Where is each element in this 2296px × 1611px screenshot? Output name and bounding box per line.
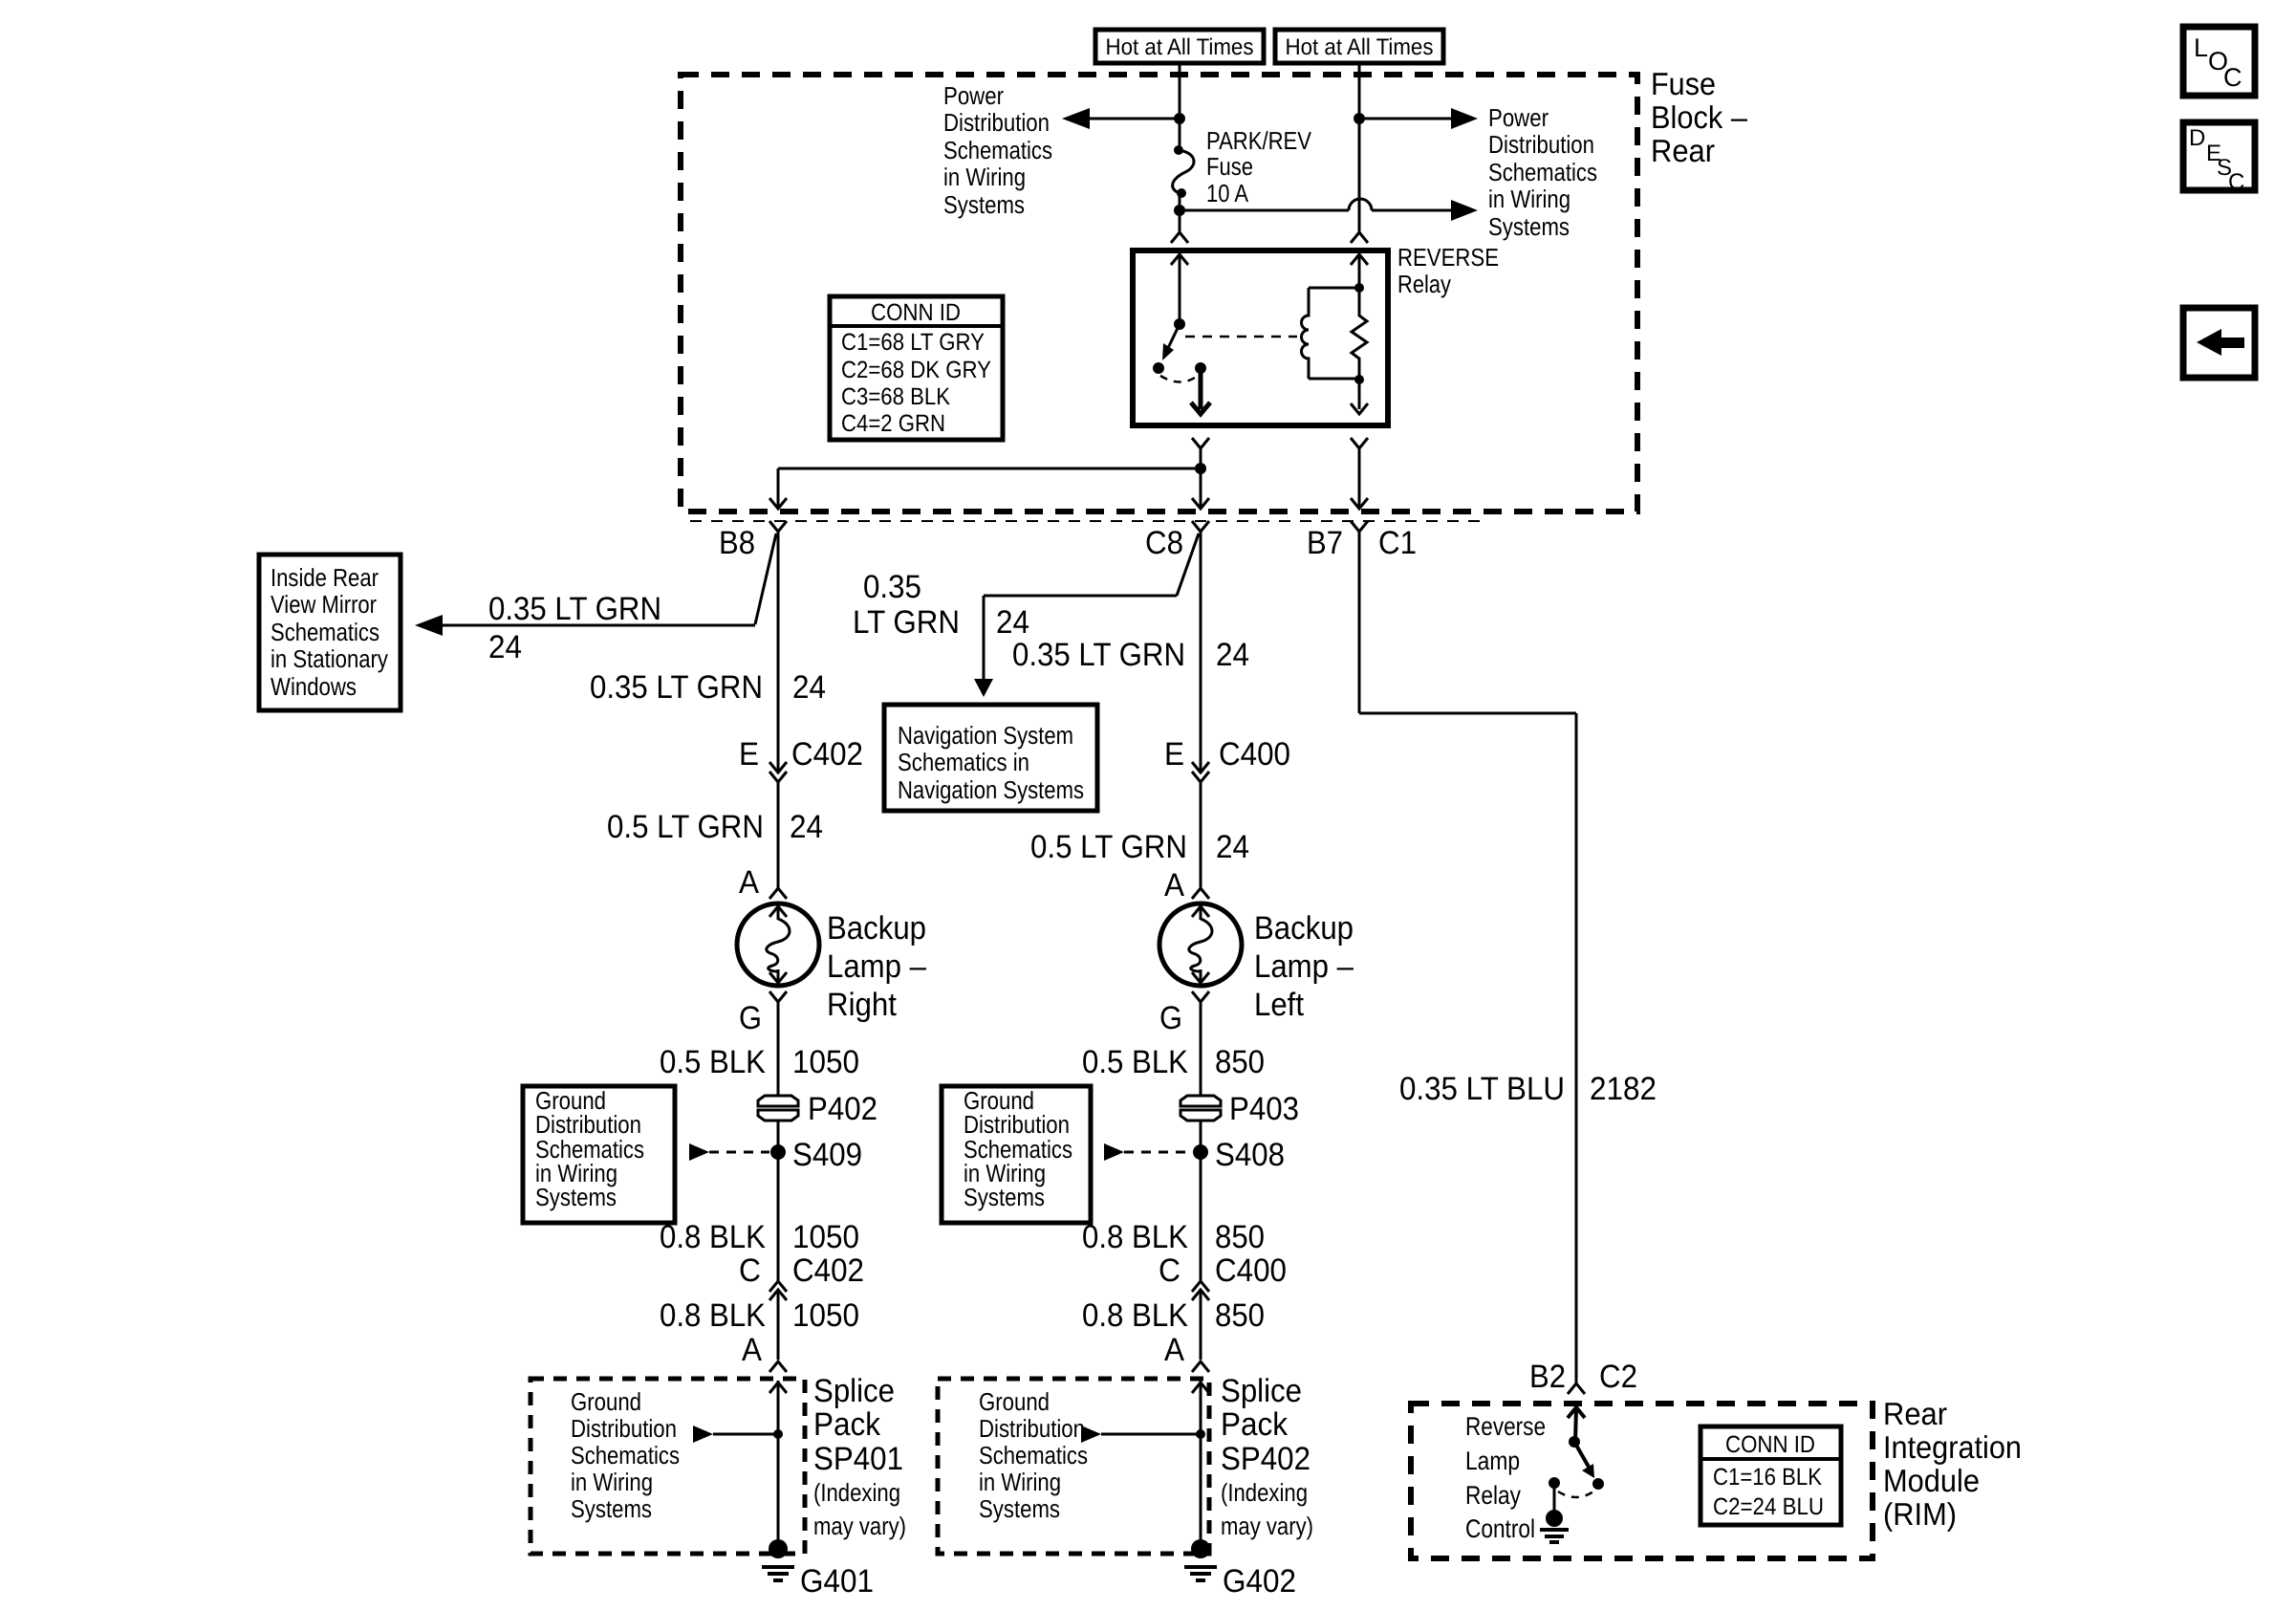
svg-text:C2=24 BLU: C2=24 BLU [1713, 1493, 1824, 1520]
fuse block - rear dashed enclosure [681, 75, 1637, 512]
wire: C402 pin C to splice pack SP401 [777, 1290, 780, 1360]
svg-text:Lamp –: Lamp – [1254, 948, 1354, 985]
dashed reference link to S409 [689, 1143, 769, 1161]
grommet P403 [1180, 1096, 1221, 1121]
connector C400 pin E (in-line) [1192, 762, 1209, 782]
wire: right power distribution arrow [1359, 118, 1452, 120]
relay switch: common pivot [1174, 318, 1185, 330]
label: PARK/REV Fuse 10 A [1206, 126, 1312, 207]
svg-text:C: C [2228, 169, 2244, 195]
pin label: C / C402 [739, 1252, 864, 1289]
connector fork: lamp right pin G [769, 991, 787, 1002]
svg-text:Relay: Relay [1465, 1481, 1521, 1510]
svg-text:Schematics: Schematics [271, 618, 379, 646]
svg-text:Windows: Windows [271, 672, 357, 701]
svg-text:C400: C400 [1215, 1252, 1287, 1289]
svg-text:C3=68 BLK: C3=68 BLK [841, 383, 950, 410]
label: 0.8 BLK 1050 (below C402) [660, 1297, 859, 1334]
svg-text:24: 24 [790, 809, 823, 845]
svg-text:0.8 BLK: 0.8 BLK [1082, 1297, 1188, 1334]
svg-text:G401: G401 [800, 1563, 874, 1600]
wire: C400 to backup lamp left pin A [1200, 782, 1202, 888]
svg-text:SP402: SP402 [1221, 1441, 1310, 1477]
svg-text:in Wiring: in Wiring [943, 163, 1026, 191]
svg-text:A: A [739, 864, 759, 901]
rear integration module dashed box [1411, 1404, 1873, 1558]
connector fork: SP401 pin A [769, 1361, 787, 1372]
junction: fuse output node [1174, 205, 1185, 216]
wire: fuse output down to reverse relay [1179, 193, 1181, 232]
svg-text:850: 850 [1215, 1219, 1265, 1255]
relay switch: travel arc (dashed) [1160, 376, 1198, 382]
label: 0.5 LT GRN 24 (left) [607, 809, 823, 845]
relay switch: NO output contact [1195, 362, 1206, 374]
reference link arrow inside SP402 [1081, 1426, 1201, 1443]
svg-text:in Wiring: in Wiring [1488, 185, 1570, 213]
label: Backup Lamp - Left [1254, 910, 1354, 1023]
junction: left hot feed node [1174, 113, 1185, 124]
label: 0.35 LT GRN 24 (navigation branch) [853, 569, 1029, 641]
wire: SP401 internal bus to ground [777, 1381, 780, 1549]
svg-text:CONN ID: CONN ID [871, 299, 961, 326]
relay switch: movable arm [1162, 324, 1180, 360]
svg-text:(Indexing: (Indexing [813, 1478, 900, 1507]
label: Backup Lamp - Right [827, 910, 926, 1023]
svg-text:Backup: Backup [1254, 910, 1354, 947]
connector fork: B2/C2 (above RIM) [1568, 1383, 1585, 1394]
svg-text:Schematics: Schematics [943, 136, 1052, 164]
terminal arrow: relay pin 30 (inside top) [1171, 254, 1188, 324]
svg-text:Navigation Systems: Navigation Systems [898, 775, 1084, 804]
svg-text:Reverse: Reverse [1465, 1412, 1546, 1441]
svg-text:850: 850 [1215, 1297, 1265, 1334]
svg-text:1050: 1050 [792, 1044, 859, 1080]
label: Power Distribution Schematics in Wiring Systems (right) [1488, 103, 1597, 241]
label: 0.8 BLK 1050 (above C402) [660, 1219, 859, 1255]
svg-text:Schematics in: Schematics in [898, 748, 1029, 776]
RIM switch: ground contact [1549, 1477, 1560, 1489]
pin label: C / C400 [1159, 1252, 1287, 1289]
svg-text:C: C [739, 1252, 761, 1289]
svg-text:0.8 BLK: 0.8 BLK [1082, 1219, 1188, 1255]
connector fork: relay pin 87 output (below box) [1192, 438, 1209, 509]
fuse F: PARK/REV 10 A [1173, 145, 1194, 198]
svg-text:C402: C402 [792, 1252, 864, 1289]
terminal arrow: C8 exit (inside fuse block) [1192, 498, 1209, 509]
svg-text:0.5 BLK: 0.5 BLK [1082, 1044, 1188, 1080]
svg-text:Hot at All Times: Hot at All Times [1286, 34, 1434, 60]
relay switch: actuation link to coil (dashed) [1185, 336, 1297, 338]
svg-text:Power: Power [1488, 103, 1549, 132]
wire: relay switched output (thick down arrow) [1191, 368, 1210, 414]
wire: relay coil return to pin 85 with down arrow [1351, 380, 1368, 414]
svg-text:Distribution: Distribution [979, 1414, 1085, 1443]
svg-text:P403: P403 [1229, 1091, 1299, 1127]
svg-text:0.35 LT BLU: 0.35 LT BLU [1399, 1071, 1565, 1107]
svg-text:Schematics: Schematics [1488, 158, 1597, 186]
junction: coil bottom node [1354, 375, 1364, 384]
ground: RIM internal [1540, 1510, 1569, 1542]
label: 0.35 LT GRN 24 (left column) [590, 669, 826, 706]
svg-text:C400: C400 [1219, 736, 1290, 773]
svg-text:A: A [742, 1332, 762, 1368]
junction: SP402 bus node [1196, 1429, 1205, 1439]
junction: SP401 bus node [773, 1429, 783, 1439]
wire: internal branch to B8 exit [778, 468, 1201, 509]
wire: P402 to connector C402 pin C [777, 1120, 780, 1281]
junction: relay output / B8 branch node [1195, 463, 1206, 474]
svg-text:24: 24 [1216, 637, 1249, 673]
svg-text:Splice: Splice [813, 1373, 895, 1409]
svg-text:Fuse: Fuse [1206, 152, 1253, 181]
svg-text:Schematics: Schematics [979, 1441, 1088, 1469]
svg-text:24: 24 [996, 604, 1029, 641]
splice pack SP401 dashed box [531, 1379, 805, 1554]
svg-text:2182: 2182 [1590, 1071, 1657, 1107]
relay K: REVERSE Relay box [1133, 250, 1388, 425]
svg-text:G402: G402 [1223, 1563, 1296, 1600]
label: 0.35 LT BLU 2182 [1399, 1071, 1657, 1107]
DESC key box [2183, 122, 2255, 195]
relay switch: NC contact [1153, 362, 1164, 374]
svg-text:SP401: SP401 [813, 1441, 903, 1477]
svg-text:Distribution: Distribution [943, 108, 1050, 137]
callout box: Ground Distribution Schematics in Wiring Systems (left) [523, 1086, 675, 1223]
connector fork: relay pin 86 feed (top right) [1351, 232, 1368, 243]
svg-text:LT GRN: LT GRN [853, 604, 960, 641]
svg-text:Distribution: Distribution [1488, 130, 1594, 159]
callout text: Ground Distribution Schematics in Wiring Systems (SP401) [571, 1387, 680, 1523]
wire: B8 branch to inside rear view mirror schematics [415, 533, 776, 636]
RIM switch: output contact [1592, 1478, 1604, 1490]
relay coil [1302, 288, 1360, 379]
power tag: Hot at All Times (left) [1095, 30, 1264, 63]
svg-text:C1: C1 [1378, 525, 1417, 561]
svg-text:may vary): may vary) [1221, 1512, 1313, 1540]
pin label: E / C400 [1164, 736, 1290, 773]
connector fork: lamp left pin G [1192, 991, 1209, 1002]
wire: lamp right G to grommet P402 [777, 1002, 780, 1098]
label: Fuse Block - Rear [1651, 66, 1748, 168]
svg-text:850: 850 [1215, 1044, 1265, 1080]
grommet P402 [758, 1096, 798, 1121]
label: 0.35 LT GRN 24 (mirror branch) [488, 591, 661, 665]
splice S408 [1193, 1144, 1208, 1160]
power tag: Hot at All Times (right) [1275, 30, 1443, 63]
connector fork: B8 (below fuse block) [769, 521, 787, 532]
svg-text:Rear: Rear [1883, 1396, 1947, 1431]
pin label: E / C402 [739, 736, 863, 773]
svg-text:C1=68 LT GRY: C1=68 LT GRY [841, 329, 985, 356]
svg-text:D: D [2189, 125, 2205, 151]
svg-text:S409: S409 [792, 1137, 862, 1173]
callout box: Navigation System Schematics in Navigation Systems [884, 705, 1097, 811]
svg-text:C: C [1159, 1252, 1180, 1289]
svg-text:S408: S408 [1215, 1137, 1285, 1173]
svg-text:Pack: Pack [1221, 1406, 1289, 1443]
svg-text:B8: B8 [719, 525, 755, 561]
terminal arrow: SP402 entry [1192, 1382, 1209, 1393]
svg-text:24: 24 [792, 669, 826, 706]
svg-text:Systems: Systems [979, 1494, 1060, 1523]
terminal arrow: C1 exit (inside fuse block) [1351, 498, 1368, 509]
wire: C8 branch to navigation system schematics [974, 533, 1199, 697]
ground G401 [762, 1539, 794, 1580]
label: 0.5 LT GRN 24 (middle) [1030, 829, 1249, 865]
svg-text:Schematics: Schematics [571, 1441, 680, 1469]
svg-text:G: G [739, 1000, 762, 1036]
svg-text:1050: 1050 [792, 1219, 859, 1255]
svg-text:Distribution: Distribution [571, 1414, 677, 1443]
svg-text:Ground: Ground [571, 1387, 641, 1416]
label: 0.35 LT GRN 24 (middle column) [1012, 637, 1249, 673]
svg-text:B2: B2 [1529, 1359, 1566, 1395]
wire: B8 to connector C402 pin E [777, 532, 780, 773]
label: 0.8 BLK 850 (above C400) [1082, 1219, 1265, 1255]
svg-text:Navigation System: Navigation System [898, 721, 1073, 750]
svg-text:C4=2 GRN: C4=2 GRN [841, 410, 945, 437]
wire: fuse output distribution arrow with hop over right feed [1180, 199, 1478, 221]
connector C402 pin E (in-line) [769, 762, 787, 782]
terminal arrow: relay pin 86 (inside top) [1351, 254, 1368, 288]
svg-text:A: A [1164, 867, 1184, 903]
svg-text:Systems: Systems [964, 1183, 1045, 1211]
svg-text:0.8 BLK: 0.8 BLK [660, 1297, 766, 1334]
table: CONN ID (fuse block connectors) [830, 296, 1003, 440]
svg-text:Lamp –: Lamp – [827, 948, 926, 985]
junction: coil top node [1354, 283, 1364, 293]
svg-text:24: 24 [1216, 829, 1249, 865]
svg-text:Pack: Pack [813, 1406, 881, 1443]
wire: P403 to connector C400 pin C [1200, 1120, 1202, 1281]
label: 0.5 BLK 850 [1082, 1044, 1265, 1080]
label: Power Distribution Schematics in Wiring Systems (left) [943, 81, 1052, 219]
RIM switch: movable arm [1574, 1442, 1594, 1478]
RIM switch: travel arc (dashed) [1558, 1491, 1593, 1497]
svg-text:in Wiring: in Wiring [571, 1468, 653, 1496]
wire: C402 to backup lamp right pin A [777, 782, 780, 888]
connector fork: lamp right pin A [769, 888, 787, 899]
svg-text:REVERSE: REVERSE [1397, 243, 1499, 272]
lamp E: Backup Lamp - Left [1159, 903, 1242, 986]
reference link arrow inside SP401 [693, 1426, 778, 1443]
svg-text:Ground: Ground [979, 1387, 1050, 1416]
svg-text:24: 24 [488, 629, 522, 665]
svg-text:E: E [739, 736, 759, 773]
terminal arrow: B8 exit (inside fuse block) [769, 498, 787, 509]
svg-text:A: A [1164, 1332, 1184, 1368]
svg-text:Rear: Rear [1651, 133, 1715, 168]
svg-text:Systems: Systems [571, 1494, 652, 1523]
svg-text:C2: C2 [1599, 1359, 1637, 1395]
svg-text:1050: 1050 [792, 1297, 859, 1334]
wire: left power distribution arrow [1089, 118, 1180, 120]
svg-text:in Stationary: in Stationary [271, 644, 388, 673]
connector C400 pin C (in-line) [1192, 1281, 1209, 1300]
svg-text:Inside Rear: Inside Rear [271, 563, 379, 592]
svg-text:Right: Right [827, 987, 898, 1023]
splice pack SP402 dashed box [938, 1379, 1209, 1554]
svg-text:Control: Control [1465, 1514, 1535, 1543]
connector fork: C8 (below fuse block) [1192, 521, 1209, 532]
label: REVERSE Relay [1397, 243, 1499, 298]
svg-text:Fuse: Fuse [1651, 66, 1716, 101]
wire: lamp left G to grommet P403 [1200, 1002, 1202, 1098]
label: Splice Pack SP401 (Indexing may vary) [813, 1373, 906, 1540]
svg-text:P402: P402 [808, 1091, 877, 1127]
svg-text:0.35 LT GRN: 0.35 LT GRN [1012, 637, 1185, 673]
resistor: relay suppression resistor [1352, 288, 1367, 380]
connector fork: SP402 pin A [1192, 1361, 1209, 1372]
table: CONN ID (RIM connectors) [1700, 1426, 1841, 1525]
callout box: Ground Distribution Schematics in Wiring Systems (middle) [942, 1086, 1091, 1223]
junction: right hot feed node [1354, 113, 1365, 124]
svg-text:may vary): may vary) [813, 1512, 906, 1540]
svg-text:G: G [1159, 1000, 1182, 1036]
svg-text:C8: C8 [1145, 525, 1183, 561]
svg-text:B7: B7 [1307, 525, 1343, 561]
wire: C400 pin C to splice pack SP402 [1200, 1290, 1202, 1360]
terminal arrow: SP401 entry [769, 1382, 787, 1393]
svg-text:Power: Power [943, 81, 1004, 110]
wire: C1 to RIM connector C2 pin B2 [1359, 532, 1576, 1383]
svg-text:10 A: 10 A [1206, 179, 1249, 207]
terminal arrow: RIM B2 entry (inside, up arrow) [1568, 1407, 1585, 1442]
svg-text:Systems: Systems [1488, 212, 1570, 241]
connector fork: B7/C1 (below fuse block) [1351, 521, 1368, 532]
label: Reverse Lamp Relay Control [1465, 1412, 1546, 1543]
wire: right hot feed from Hot-at-All-Times to relay [1358, 63, 1361, 232]
svg-text:Block –: Block – [1651, 99, 1748, 135]
svg-text:E: E [1164, 736, 1184, 773]
svg-text:0.35: 0.35 [863, 569, 921, 605]
back-arrow key box [2183, 308, 2255, 378]
svg-text:0.35 LT GRN: 0.35 LT GRN [488, 591, 661, 627]
svg-text:PARK/REV: PARK/REV [1206, 126, 1312, 155]
svg-text:0.8 BLK: 0.8 BLK [660, 1219, 766, 1255]
svg-text:C1=16 BLK: C1=16 BLK [1713, 1464, 1822, 1491]
label: 0.8 BLK 850 (below C400) [1082, 1297, 1265, 1334]
svg-text:Systems: Systems [535, 1183, 617, 1211]
svg-text:C402: C402 [791, 736, 863, 773]
svg-text:0.5 LT GRN: 0.5 LT GRN [607, 809, 764, 845]
connector fork: lamp left pin A [1192, 888, 1209, 899]
svg-text:Left: Left [1254, 987, 1305, 1023]
svg-text:0.35 LT GRN: 0.35 LT GRN [590, 669, 763, 706]
ground G402 [1184, 1539, 1217, 1580]
svg-text:C: C [2223, 63, 2242, 92]
svg-text:Hot at All Times: Hot at All Times [1106, 34, 1254, 60]
svg-text:Relay: Relay [1397, 270, 1451, 298]
svg-text:Splice: Splice [1221, 1373, 1302, 1409]
LOC key box [2183, 27, 2255, 96]
connector face line (thin dashed) [690, 520, 1481, 522]
svg-text:Systems: Systems [943, 190, 1025, 219]
splice S409 [770, 1144, 786, 1160]
RIM switch: common pivot [1569, 1436, 1580, 1448]
svg-text:C2=68 DK GRY: C2=68 DK GRY [841, 357, 991, 383]
wire: left hot feed from Hot-at-All-Times to fuse [1179, 63, 1181, 151]
lamp E: Backup Lamp - Right [737, 903, 819, 986]
svg-text:0.5 LT GRN: 0.5 LT GRN [1030, 829, 1187, 865]
wire: C8 to connector C400 pin E [1200, 532, 1202, 773]
svg-text:Lamp: Lamp [1465, 1447, 1520, 1475]
label: Rear Integration Module (RIM) [1883, 1396, 2022, 1532]
callout box: Inside Rear View Mirror Schematics in Stationary Windows [259, 555, 401, 710]
svg-text:in Wiring: in Wiring [979, 1468, 1061, 1496]
connector fork: relay pin 85 output (below box) [1351, 438, 1368, 509]
label: 0.5 BLK 1050 [660, 1044, 859, 1080]
wire: RIM switch contact to internal ground [1553, 1483, 1556, 1518]
dashed reference link to S408 [1104, 1143, 1192, 1161]
svg-text:Module: Module [1883, 1463, 1980, 1498]
wire: SP402 internal bus to ground [1200, 1381, 1202, 1549]
svg-text:L: L [2194, 33, 2208, 62]
svg-text:Backup: Backup [827, 910, 926, 947]
svg-text:CONN ID: CONN ID [1725, 1431, 1815, 1458]
svg-text:Integration: Integration [1883, 1429, 2022, 1465]
svg-text:(RIM): (RIM) [1883, 1496, 1957, 1532]
label: Splice Pack SP402 (Indexing may vary) [1221, 1373, 1313, 1540]
svg-text:0.5 BLK: 0.5 BLK [660, 1044, 766, 1080]
connector C402 pin C (in-line) [769, 1281, 787, 1300]
svg-text:(Indexing: (Indexing [1221, 1478, 1308, 1507]
callout text: Ground Distribution Schematics in Wiring Systems (SP402) [979, 1387, 1088, 1523]
svg-text:View Mirror: View Mirror [271, 590, 377, 619]
connector fork: relay pin 30 feed (top left) [1171, 232, 1188, 243]
